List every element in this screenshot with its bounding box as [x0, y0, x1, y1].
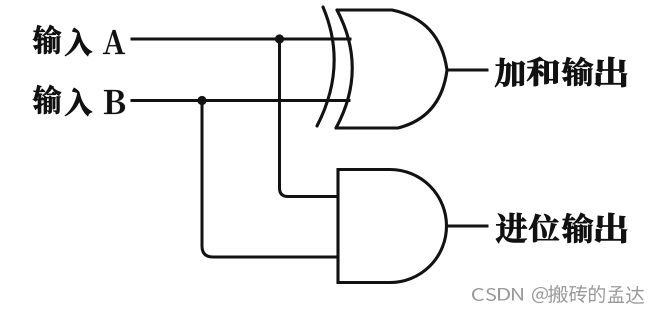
- wire A branch down to AND top input: [280, 39, 339, 197]
- wire XOR output: [447, 69, 487, 72]
- wire B branch down to AND bottom input: [202, 101, 338, 258]
- wire AND output: [447, 225, 488, 228]
- XOR gate U1 input arc: [317, 7, 334, 126]
- label 输入B: [33, 85, 61, 114]
- XOR gate U1 body: [336, 10, 352, 128]
- label 进位输出 (carry output): [496, 213, 527, 243]
- junction node on wire B: [197, 96, 206, 105]
- wire input A horizontal: [132, 38, 350, 41]
- wire input B horizontal: [132, 99, 349, 102]
- AND gate U2 body: [338, 170, 447, 283]
- label 输入A: [33, 25, 61, 54]
- junction node on wire A: [275, 34, 284, 43]
- label 加和输出 (sum output): [495, 58, 525, 87]
- watermark CSDN @搬砖的孟达: [472, 288, 484, 301]
